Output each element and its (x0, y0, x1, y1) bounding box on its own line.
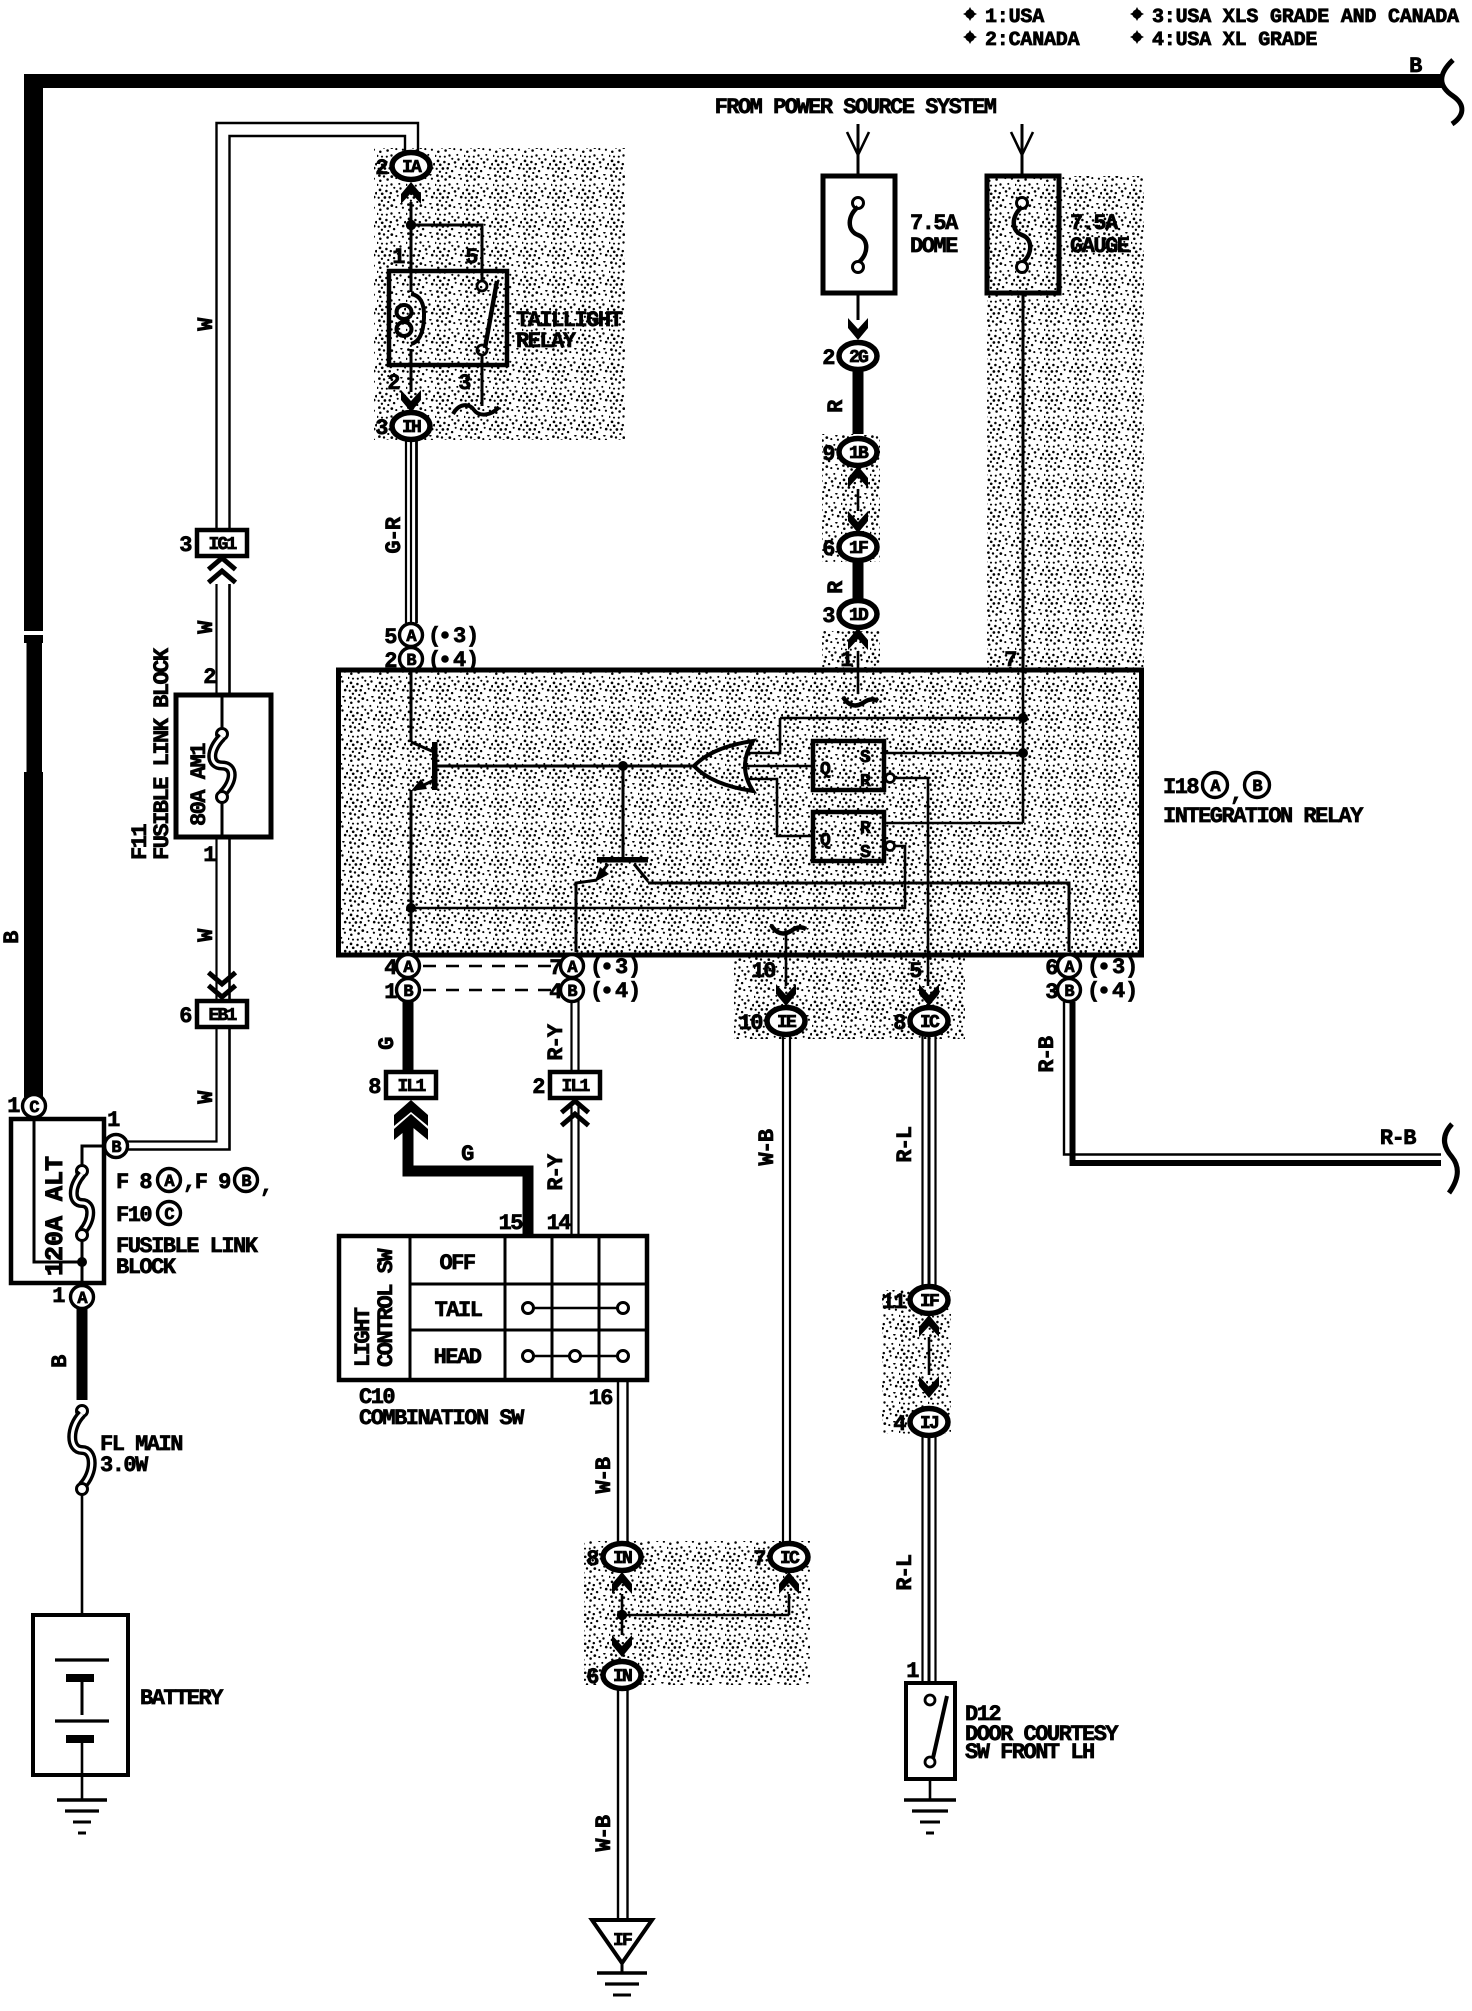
svg-text:7: 7 (753, 1547, 765, 1572)
door courtesy switch D12 box (906, 1683, 955, 1779)
wire to Q2 base (622, 766, 625, 857)
junction inside ALT box (77, 1257, 87, 1267)
wire W-B double from pin 16 (617, 1380, 619, 1544)
chevron below IL1 2 (562, 1101, 589, 1126)
wire GAUGE fuse to integration relay pin 7 (1022, 293, 1025, 673)
fusible link 80A AM1 (212, 729, 232, 803)
wire IN junction (621, 1594, 624, 1635)
stipple background IF/IJ patch (882, 1290, 951, 1434)
wire inside F11 lower (221, 802, 224, 837)
fusible link FL MAIN 3.0W (72, 1406, 92, 1495)
arrow down into IJ (919, 1376, 939, 1398)
svg-text:BATTERY: BATTERY (140, 1686, 224, 1711)
svg-text:7.5A: 7.5A (1070, 211, 1119, 236)
switch TAIL contacts (534, 1307, 617, 1310)
junction node (406, 220, 416, 230)
svg-text:R-L: R-L (893, 1126, 918, 1162)
svg-text:1: 1 (52, 1284, 65, 1309)
wire hook to pin 10 (785, 934, 788, 952)
svg-text:6: 6 (586, 1665, 598, 1690)
wire OR input middle to FF1 Q (744, 765, 813, 768)
svg-text:CONTROL SW: CONTROL SW (374, 1248, 399, 1367)
svg-text:IH: IH (402, 418, 421, 438)
svg-text:RELAY: RELAY (516, 329, 577, 354)
svg-text:B: B (48, 1355, 73, 1368)
svg-text:W-B: W-B (592, 1457, 617, 1493)
svg-text:B: B (1252, 778, 1262, 797)
wire OR input lower to FF2 Q (748, 779, 813, 836)
svg-text:8: 8 (893, 1011, 906, 1036)
svg-text:LIGHT: LIGHT (351, 1307, 376, 1367)
svg-text:G: G (461, 1142, 474, 1167)
wire B thick from A terminal (77, 1308, 88, 1400)
wire branch to relay pin 5 (411, 225, 482, 281)
svg-text:FROM POWER SOURCE SYSTEM: FROM POWER SOURCE SYSTEM (715, 95, 997, 120)
svg-text:2: 2 (532, 1075, 544, 1100)
wire FF1 S input (884, 752, 1023, 755)
svg-text:8: 8 (368, 1075, 381, 1100)
svg-text:I18: I18 (1163, 775, 1199, 800)
wire R-Y double from 4B to IL1 (570, 1001, 572, 1072)
svg-text:11: 11 (882, 1290, 907, 1315)
svg-text:3: 3 (179, 533, 192, 558)
svg-text:INTEGRATION RELAY: INTEGRATION RELAY (1163, 804, 1364, 829)
transistor Q1 (PNP) (411, 742, 438, 791)
wire to A terminal (81, 1240, 84, 1292)
connector IA pin 2 (375, 153, 430, 182)
arrow down into 2G (848, 318, 868, 340)
switch HEAD contacts (534, 1355, 617, 1358)
wire D12 to ground (929, 1779, 932, 1800)
battery cell link (81, 1682, 84, 1715)
taillight relay box (389, 271, 507, 365)
wire OR input upper to pin7 line (748, 718, 780, 753)
svg-text:B: B (111, 1139, 121, 1158)
svg-text:3: 3 (822, 604, 835, 629)
svg-text:R-Y: R-Y (544, 1023, 569, 1060)
svg-text:2: 2 (203, 665, 215, 690)
flip-flop U3 (Q R S) (813, 812, 884, 863)
wire R-L triple from IC (921, 1034, 923, 1287)
svg-text:IE: IE (777, 1013, 797, 1033)
svg-text:2: 2 (387, 371, 399, 396)
junction node (617, 1610, 627, 1620)
dashed link row 1 (423, 965, 551, 968)
wire branch riser (788, 1594, 791, 1615)
stipple background gauge fuse column (987, 176, 1144, 672)
legend star 3 (1130, 7, 1144, 21)
svg-text:4: 4 (893, 1412, 906, 1437)
svg-text:G: G (375, 1037, 400, 1050)
relay coil (411, 294, 424, 344)
connector IG1 pin 3 (179, 530, 247, 558)
wire left vertical bus (thick) lower segment (24, 772, 43, 1097)
svg-text:3: 3 (615, 955, 628, 980)
connector IN pin 6 (586, 1662, 641, 1691)
svg-text:1B: 1B (849, 444, 869, 464)
wire G thick elbow into switch pin 15 (408, 1126, 528, 1236)
legend star 2 (963, 30, 977, 44)
svg-text:15: 15 (499, 1211, 524, 1236)
wire pin 2B into relay (410, 670, 413, 742)
svg-text:4: 4 (615, 979, 628, 1004)
svg-text:3.0W: 3.0W (100, 1453, 149, 1478)
terminal C circle (23, 1095, 46, 1119)
svg-text:1F: 1F (849, 539, 868, 559)
svg-text:): ) (466, 624, 478, 649)
svg-text:16: 16 (589, 1386, 613, 1411)
svg-text:C: C (164, 1206, 174, 1225)
wire pin 7 riser inside relay (1022, 673, 1025, 823)
svg-text:6: 6 (179, 1004, 191, 1029)
svg-text:OFF: OFF (439, 1251, 474, 1276)
stipple background 1B/1F connector patch (822, 434, 880, 562)
junction node S line (1018, 748, 1028, 758)
svg-text:): ) (628, 979, 640, 1004)
svg-text:(: ( (1087, 955, 1099, 980)
wire 1B to 1F (857, 489, 860, 511)
transistor Q2 (NPN) (595, 857, 648, 882)
OR gate U1 (694, 741, 753, 791)
battery plate short 1 (66, 1674, 94, 1682)
stipple background taillight relay area (374, 148, 625, 440)
wire W-B double from IN 6 to ground (617, 1689, 619, 1920)
junction node on left exit wire (406, 903, 416, 913)
svg-text:HEAD: HEAD (434, 1345, 482, 1370)
arrow down into 1F (848, 511, 868, 533)
svg-text:IC: IC (920, 1013, 940, 1033)
svg-text:8: 8 (586, 1547, 599, 1572)
svg-text:IF: IF (920, 1292, 939, 1312)
wire Q1 emitter down to pin 4A/1B (410, 790, 413, 952)
connector 1B pin 9 (822, 439, 877, 468)
svg-text:B: B (1064, 983, 1074, 1002)
svg-text:2G: 2G (849, 348, 868, 368)
wire from power source to GAUGE fuse (1021, 124, 1024, 176)
wire top line to pin 7 riser (780, 717, 1023, 720)
stipple background below relay IE/IC patch (734, 953, 965, 1039)
connector IJ pin 4 (893, 1409, 948, 1438)
inverter bubble FF1 R (886, 774, 895, 783)
wire Q1 base to OR gate output (437, 765, 695, 768)
terminal B circle (105, 1135, 128, 1159)
svg-text:3: 3 (453, 624, 466, 649)
svg-text:FUSIBLE LINK BLOCK: FUSIBLE LINK BLOCK (150, 647, 175, 860)
wire from power source to DOME fuse (857, 124, 860, 176)
switch contact bottom (925, 1757, 935, 1767)
svg-text:G-R: G-R (382, 516, 407, 553)
wire Q2 emitter to pin 7A/4B (576, 880, 597, 952)
fuse 7.5A DOME box (823, 176, 895, 293)
fuse 7.5A GAUGE symbol (1014, 198, 1031, 273)
relay switch contact top (477, 281, 487, 291)
ground below battery (57, 1798, 107, 1802)
wire W-B double from IE down to IC (782, 1034, 784, 1544)
svg-text:1D: 1D (849, 606, 869, 626)
arrowhead into GAUGE branch (1011, 132, 1033, 155)
svg-text:120A ALT: 120A ALT (41, 1156, 70, 1276)
wire IA to relay coil (410, 202, 413, 292)
svg-text:IJ: IJ (920, 1414, 938, 1434)
junction node top (1018, 713, 1028, 723)
svg-text:B: B (1409, 54, 1422, 79)
wire R-B from 3B down and right (1064, 1002, 1441, 1155)
svg-text:6: 6 (1045, 956, 1057, 981)
svg-text:B: B (567, 983, 577, 1002)
svg-text:IF: IF (613, 1931, 632, 1951)
fusible link block F11 box (176, 695, 271, 837)
svg-text:W-B: W-B (755, 1129, 780, 1165)
connector 2G pin 2 (822, 343, 877, 372)
svg-text:F10: F10 (116, 1203, 151, 1228)
ground symbol below D12 (904, 1798, 956, 1802)
svg-text:IN: IN (613, 1549, 632, 1569)
table divider (409, 1236, 412, 1380)
svg-text:R-B: R-B (1380, 1126, 1416, 1151)
svg-text:B: B (403, 983, 413, 1002)
table row line (410, 1329, 647, 1332)
wire R-Y double to switch pin 14 (570, 1104, 572, 1236)
integration relay box (339, 670, 1142, 955)
arrow up below 1D (848, 628, 868, 650)
wire FF1 R to pin 5 (895, 778, 928, 952)
fuse 7.5A DOME symbol (850, 198, 867, 273)
relay switch contact bottom (477, 345, 487, 355)
chevron junction below IG1 (209, 558, 236, 583)
chevron junction above EB1 (209, 973, 236, 998)
wire W double-line from top to IA and down to IG1 (217, 123, 419, 532)
svg-text:5: 5 (909, 959, 922, 984)
connector IN pin 8 (586, 1544, 641, 1573)
ground triangle IF (592, 1920, 652, 1963)
svg-text:3: 3 (1112, 955, 1125, 980)
wire left vertical bus (thick) upper segment (24, 74, 43, 631)
wire inside F11 upper (221, 695, 224, 729)
connector IL1 pin 2 (532, 1072, 600, 1100)
svg-text:9: 9 (822, 442, 834, 467)
wire W from IG1 to F11 (215, 584, 217, 695)
stipple background integration relay interior (341, 672, 1139, 953)
stipple background IN/IC patch (584, 1541, 810, 1685)
svg-text:,: , (260, 1174, 272, 1199)
svg-text:): ) (1125, 979, 1137, 1004)
svg-text:1:USA: 1:USA (985, 6, 1044, 29)
svg-text:4: 4 (1112, 979, 1125, 1004)
wire 1D to integration relay pin 1 (857, 651, 860, 694)
solid chevron below IL1 8 (394, 1100, 428, 1126)
wire R thick (853, 370, 864, 434)
svg-text:(: ( (428, 624, 440, 649)
wire continuation squiggle pin 3 (453, 405, 499, 414)
svg-text:IN: IN (613, 1667, 632, 1687)
svg-text:): ) (1125, 955, 1137, 980)
wire coil to pin 2 (410, 349, 413, 392)
svg-text:R-B: R-B (1035, 1036, 1060, 1072)
svg-text:1: 1 (392, 245, 405, 270)
internal hook pin 10 (771, 925, 806, 933)
connector IF pin 11 (882, 1287, 948, 1316)
wire IF to IJ (928, 1337, 931, 1375)
dashed link row 2 (423, 989, 551, 992)
svg-text:B: B (0, 931, 25, 944)
relay switch lever (485, 281, 497, 348)
svg-text:1: 1 (107, 1108, 120, 1133)
svg-text:(: ( (590, 955, 602, 980)
svg-text:COMBINATION SW: COMBINATION SW (359, 1406, 525, 1431)
connector 1F pin 6 (822, 534, 877, 563)
svg-text:5: 5 (384, 625, 397, 650)
connector EB1 pin 6 (179, 1001, 247, 1029)
arrow up below IC (779, 1572, 799, 1594)
arrowhead into DOME branch (847, 132, 869, 155)
svg-text:6: 6 (822, 537, 834, 562)
svg-text:,F 9: ,F 9 (183, 1170, 230, 1195)
svg-text:80A AM1: 80A AM1 (187, 743, 212, 826)
connector IE pin 10 (739, 1008, 805, 1037)
fuse 7.5A GAUGE box (987, 176, 1059, 293)
battery plate short 2 (66, 1735, 94, 1743)
wire continuation curl top right (1442, 60, 1462, 124)
svg-text:BLOCK: BLOCK (116, 1255, 177, 1280)
switch contact top (925, 1695, 935, 1705)
combination switch C10 box (339, 1236, 647, 1380)
arrow up below IN (612, 1572, 632, 1594)
wire DOME fuse to 2G (857, 293, 860, 320)
wire Q2 collector to pin 6A/3B (648, 883, 1069, 952)
wire left bus narrow segment (27, 643, 43, 772)
fusible link block 120A ALT box (11, 1119, 104, 1283)
arrow up below 1B (848, 466, 868, 488)
legend star 1 (963, 7, 977, 21)
wire left bus splice collar (24, 635, 43, 643)
wire G thick from 1B to IL1 (403, 1001, 414, 1072)
terminal A circle (71, 1286, 94, 1310)
battery plate long 1 (55, 1658, 109, 1661)
svg-text:2: 2 (375, 156, 387, 181)
connector IC pin 7 (753, 1544, 808, 1573)
svg-text:10: 10 (752, 959, 776, 984)
svg-text:(: ( (590, 979, 602, 1004)
svg-text:2: 2 (822, 346, 834, 371)
svg-text:3:USA XLS GRADE AND CANADA: 3:USA XLS GRADE AND CANADA (1152, 6, 1459, 29)
svg-text:F 8: F 8 (116, 1170, 152, 1195)
battery plate long 2 (55, 1719, 109, 1722)
flip-flop U2 (Q S R) (813, 741, 884, 792)
wire battery to ground (81, 1743, 84, 1800)
svg-text:3: 3 (375, 416, 388, 441)
svg-text:14: 14 (547, 1211, 572, 1236)
table divider (504, 1236, 507, 1380)
svg-text:GAUGE: GAUGE (1070, 234, 1130, 259)
arrow down into IC (919, 984, 939, 1006)
inverter bubble FF2 S (886, 842, 895, 851)
wire main power bus (thick horizontal bar) (25, 74, 1442, 88)
svg-text:): ) (628, 955, 640, 980)
svg-text:1: 1 (203, 843, 216, 868)
svg-text:TAIL: TAIL (435, 1298, 483, 1323)
wire W from EB1 to alternator B terminal (127, 1027, 217, 1142)
wire R thick (853, 561, 864, 600)
svg-text:C: C (29, 1099, 39, 1118)
wire from C inside box (34, 1117, 80, 1262)
switch lever D12 (933, 1696, 947, 1758)
svg-text:10: 10 (739, 1011, 763, 1036)
svg-text:B: B (241, 1173, 251, 1192)
junction node base line (618, 761, 628, 771)
svg-text:1: 1 (906, 1659, 919, 1684)
wire R-L triple from IJ to D12 (921, 1435, 923, 1683)
svg-text:DOME: DOME (910, 234, 958, 259)
arrow up into IA (401, 182, 421, 204)
connector IH pin 3 (375, 413, 430, 442)
svg-text:R-L: R-L (893, 1554, 918, 1590)
svg-text:IG1: IG1 (208, 535, 237, 555)
fusible link 120A ALT (74, 1166, 91, 1241)
svg-text:EB1: EB1 (208, 1006, 237, 1026)
wire W from F11 to EB1 (215, 837, 217, 1001)
connector IC pin 8 (893, 1008, 948, 1037)
wire relay pin 3 (481, 355, 484, 406)
table row line (410, 1283, 647, 1286)
wire to battery (81, 1495, 84, 1660)
wire continuation curl right (1445, 1124, 1458, 1193)
svg-text:SW FRONT LH: SW FRONT LH (965, 1740, 1094, 1765)
wire FF2 R input (884, 822, 1023, 825)
wire FF2 S to left junction (411, 846, 905, 908)
arrow up below IF (919, 1315, 939, 1337)
battery box (33, 1615, 128, 1775)
wire G-R triple line from IH to integration relay (405, 440, 407, 623)
ground symbol below IF (597, 1971, 647, 1975)
arrow down into IN 6 (612, 1635, 632, 1657)
svg-text:IL1: IL1 (561, 1077, 590, 1097)
svg-text:1: 1 (7, 1094, 20, 1119)
wire triangle to ground (621, 1963, 624, 1973)
svg-text:IA: IA (402, 158, 422, 178)
connector 1D pin 3 (822, 601, 877, 630)
svg-text:4:USA XL GRADE: 4:USA XL GRADE (1152, 29, 1317, 52)
wire branch to IC (622, 1614, 789, 1617)
arrow down into IH (401, 390, 421, 412)
svg-text:W-B: W-B (592, 1815, 617, 1851)
svg-text:3: 3 (458, 371, 471, 396)
svg-text:7.5A: 7.5A (910, 211, 959, 236)
svg-text:R-Y: R-Y (544, 1153, 569, 1190)
svg-text:IL1: IL1 (397, 1077, 426, 1097)
arrow down into IE (776, 984, 796, 1006)
connector IL1 pin 8 (368, 1072, 436, 1100)
table divider (551, 1236, 554, 1380)
internal hook pin 1 (843, 697, 878, 705)
svg-text:2:CANADA: 2:CANADA (985, 29, 1080, 52)
legend star 4 (1130, 30, 1144, 44)
svg-text:(: ( (1087, 979, 1099, 1004)
table divider (598, 1236, 601, 1380)
svg-text:IC: IC (780, 1549, 800, 1569)
stipple background above integration relay (822, 631, 880, 672)
svg-text:5: 5 (465, 245, 478, 270)
wire from B inside box (82, 1146, 105, 1166)
